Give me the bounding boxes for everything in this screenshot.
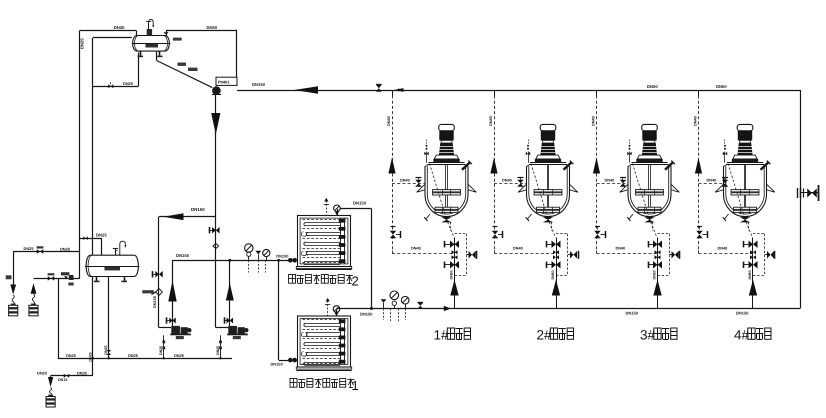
expansion tank nozzle left [136,31,138,36]
reactor bottom valves at x=649.5 [657,238,659,309]
svg-text:DN50: DN50 [551,270,555,279]
bottom supply header [337,308,801,310]
reactor at x=446.5 [439,124,455,130]
flange into heater 2 [288,258,293,263]
wire riser to cluster 3 [596,251,598,254]
wire tank bottom to circulating pump [156,52,158,61]
gauge PG2 [263,249,270,256]
flow arrow up [31,283,37,294]
svg-text:DN50: DN50 [449,270,453,279]
svg-text:DN25: DN25 [66,353,77,358]
hose 2 [32,294,34,305]
wire heater supply line [173,260,289,262]
wire top-left overflow loop [80,30,136,32]
valve on header [418,303,424,306]
svg-text:DN40: DN40 [513,246,523,250]
header tick 4 [698,90,700,96]
svg-text:4#: 4# [734,328,750,343]
flow arrow right [444,306,451,311]
valve on riser 4 [696,231,703,235]
svg-text:DN25: DN25 [80,38,85,49]
svg-text:DN25: DN25 [104,345,108,354]
storage tank vent cap [115,248,117,255]
jacket return riser 4 [698,90,700,96]
pump B drain [220,335,222,358]
wire riser to cluster 1 [392,251,394,254]
jacket return riser 1 [392,90,394,96]
wire pump discharge drop [215,95,217,328]
expansion tank vent with gooseneck [148,23,150,36]
wire riser to cluster 2 [494,251,496,254]
wire overflow link to storage tank [80,238,102,240]
wire tank area drain to drum 2 [34,278,80,280]
svg-text:DN150: DN150 [153,296,157,308]
header tick 1 [392,90,394,96]
svg-text:DN40: DN40 [387,116,391,126]
hose 3 [50,388,52,397]
expansion tank legs [140,51,142,56]
svg-text:1: 1 [352,378,359,393]
svg-text:DN40: DN40 [605,178,615,182]
wire heater 1 supply drop [278,260,280,360]
storage tank drain 2 [108,277,110,359]
svg-text:DN150: DN150 [626,311,639,316]
svg-text:DN40: DN40 [400,178,410,182]
svg-text:DN25: DN25 [89,352,93,361]
heater 2 outlet [337,209,339,216]
jacket return riser 3 [596,90,598,96]
reactor bottom valves at x=745.0 [752,238,754,309]
reactor bottom valves at x=548.0 [556,238,558,309]
wire pump A suction drop [158,217,160,328]
sample flag on header [381,299,387,303]
svg-text:P0401: P0401 [218,79,230,84]
jacket branch 1 [392,183,425,185]
svg-text:DN50: DN50 [748,270,752,279]
svg-text:DN150: DN150 [353,200,367,205]
circulating pump A [159,327,171,329]
flow arrow down [48,377,53,387]
flow arrow left [294,86,318,94]
svg-text:DN150: DN150 [276,253,288,258]
label tank V1 [146,44,159,48]
svg-text:DN150: DN150 [176,253,190,258]
pump P1 [212,86,221,95]
valve on header [376,85,382,89]
svg-text:DN40: DN40 [592,116,596,126]
drain drum 2 [29,305,38,316]
svg-text:DN50: DN50 [207,25,218,30]
svg-text:DN40: DN40 [489,116,493,126]
svg-text:DN150: DN150 [252,82,266,87]
svg-text:DN150: DN150 [360,312,373,317]
valve on riser 1 [390,231,397,235]
wire overflow drain to drum 1 [13,251,80,253]
label heater 2 [289,275,296,284]
svg-text:DN50: DN50 [652,270,656,279]
valve on riser 2 [492,231,499,235]
top return header [237,90,800,92]
gauge PG3 [390,291,399,300]
blowdown valve marks [61,272,70,275]
wire drain header [58,358,232,360]
pump B discharge [229,260,231,326]
flow arrow down [10,285,16,295]
valve on riser 3 [594,231,601,235]
expansion tank nozzle right [166,31,168,36]
svg-text:DN25: DN25 [60,246,71,251]
gauge PG1 [245,244,253,252]
wire return header branch to pump A [159,216,216,218]
svg-text:DN40: DN40 [616,246,626,250]
svg-text:DN50: DN50 [716,84,727,89]
drain drum 3 [46,397,55,408]
storage tank gooseneck vent [120,241,126,255]
jacket return riser 2 [494,90,496,96]
svg-text:DN25: DN25 [114,25,125,30]
svg-text:DN25: DN25 [77,370,88,375]
reactor at x=649.5 [642,124,658,130]
svg-text:DN25: DN25 [128,353,139,358]
pump P1 label box [216,77,237,85]
expansion tank V1 [133,36,170,52]
hose 1 [12,295,14,305]
svg-text:DN150: DN150 [271,361,283,366]
svg-text:2: 2 [352,274,359,289]
storage tank V2 [86,255,138,276]
svg-text:DN40: DN40 [718,246,728,250]
svg-text:DN150: DN150 [191,207,205,212]
reactor at x=548.0 [540,124,556,130]
Y-strainer pump A [156,289,163,296]
heater unit 1 [298,316,351,367]
svg-text:DN50: DN50 [647,84,658,89]
svg-text:3#: 3# [640,328,656,343]
sample flag [255,251,261,255]
reactor bottom valves at x=446.5 [454,238,456,309]
label paiwu [6,275,12,279]
svg-text:DN25: DN25 [37,370,48,375]
pump A drain [163,335,165,358]
circulating pump B [216,327,229,329]
svg-text:DN40: DN40 [694,116,698,126]
svg-text:2#: 2# [537,328,553,343]
label heater 1 [290,379,297,388]
storage tank drain 1 [92,277,94,376]
junction dots drain header [92,357,94,359]
valve on drain loop [108,84,111,88]
drain drum 1 [9,305,18,316]
svg-text:DN25: DN25 [174,353,185,358]
heater 1 outlet [336,309,338,316]
heater 2 vent [326,201,328,216]
valve on overflow link [83,236,85,240]
flow arrow down [211,113,220,135]
flow arrow left big [163,213,183,220]
wire drain to drum 3 [51,375,93,377]
wire expansion-tank drain loop [93,37,132,39]
valve on right edge [800,192,818,194]
strainer on pump drop [213,244,219,249]
right edge pipe [800,90,802,309]
pump A discharge [172,260,174,326]
valve on pump A suction [155,271,159,278]
jacket branch 4 [699,183,724,185]
jacket branch 2 [494,183,527,185]
valve on pump drop [212,227,216,234]
svg-text:1#: 1# [434,328,450,343]
svg-text:DN15: DN15 [58,378,67,382]
wire riser to cluster 4 [698,251,700,254]
svg-text:DN40: DN40 [502,178,512,182]
reactor at x=745.0 [737,124,753,130]
flow arrow left small [394,88,404,92]
storage tank legs [96,277,98,281]
heater unit 2 [298,216,351,267]
flange into heater 1 [288,358,293,363]
svg-text:DN25: DN25 [123,81,134,86]
svg-text:DN40: DN40 [411,246,421,250]
svg-text:DN150: DN150 [736,311,749,316]
jacket branch 3 [597,183,629,185]
wire tank outlet to pump line [166,30,237,32]
heater 1 vent [327,301,329,317]
wire heater 2 outlet drop [371,209,373,309]
svg-text:DN25: DN25 [96,233,107,238]
header tick 3 [596,90,598,96]
svg-text:DN25: DN25 [24,246,35,251]
svg-text:DN40: DN40 [707,178,717,182]
header tick 2 [494,90,496,96]
gauge PG4 [401,296,409,304]
